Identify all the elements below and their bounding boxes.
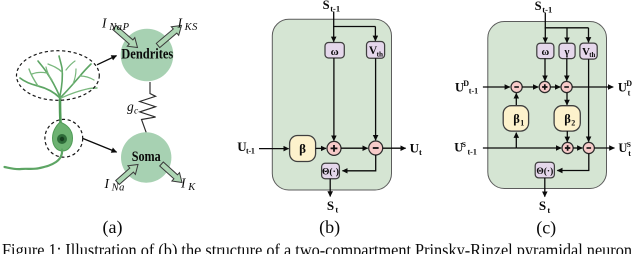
svg-text:th: th — [377, 51, 383, 59]
wire minus2 down to beta2 — [566, 93, 568, 105]
dendrite tree of drawn neuron — [20, 56, 97, 122]
wire minus2 to U^D_t — [572, 86, 613, 88]
arrow from dendrites to Dendrites node — [97, 56, 117, 65]
svg-text:I: I — [180, 176, 187, 191]
svg-text:S: S — [539, 198, 546, 213]
wire plus1 to minus2 — [550, 86, 560, 88]
wire Vth to minus — [375, 58, 377, 140]
box beta2 — [554, 106, 580, 131]
wire gamma to minus2 — [566, 59, 568, 81]
box omega c — [537, 43, 554, 58]
svg-text:Soma: Soma — [132, 149, 161, 165]
svg-text:Θ(·): Θ(·) — [536, 166, 553, 177]
svg-text:γ: γ — [564, 47, 570, 58]
svg-text:(c): (c) — [536, 218, 556, 239]
wire minus down to theta — [343, 155, 376, 171]
svg-text:I: I — [104, 176, 111, 191]
panel body b — [272, 19, 391, 190]
svg-text:t-1: t-1 — [542, 5, 552, 15]
arrow from soma to Soma node — [83, 139, 117, 153]
svg-text:2: 2 — [571, 119, 575, 128]
wire S_t-1 down and branch — [334, 12, 376, 27]
wire omega to plus — [333, 58, 335, 141]
wire U_t-1 to beta — [259, 148, 289, 150]
summing node minus — [369, 141, 383, 155]
coupling resistor g_c — [140, 82, 156, 133]
svg-text:KS: KS — [184, 22, 199, 33]
summing node plus — [327, 141, 341, 155]
soma blob of drawn neuron — [53, 122, 73, 151]
wire beta2 down to plus2 — [566, 131, 568, 142]
svg-text:Θ(·): Θ(·) — [322, 167, 339, 178]
svg-text:Dendrites: Dendrites — [121, 47, 173, 63]
wire U^D_t-1 to minus1 — [483, 86, 510, 88]
summing node plus2 — [562, 142, 573, 153]
svg-text:t-1: t-1 — [246, 147, 255, 156]
svg-text:β: β — [564, 112, 571, 126]
block arrow I_NaP input — [113, 26, 138, 48]
wire Vth down to minus4 — [588, 59, 590, 142]
wire beta to plus — [316, 147, 326, 149]
box theta — [322, 163, 340, 178]
svg-text:c: c — [134, 107, 139, 117]
svg-text:t-1: t-1 — [468, 147, 477, 156]
svg-text:S: S — [323, 0, 330, 12]
svg-text:th: th — [589, 52, 595, 59]
wire into gamma box — [566, 28, 568, 43]
svg-text:t-1: t-1 — [469, 87, 478, 96]
svg-text:t: t — [628, 88, 631, 97]
block arrow I_K output — [160, 162, 182, 183]
wire theta to S_t — [329, 179, 331, 197]
svg-text:Na: Na — [111, 183, 125, 194]
wire plus2 to minus4 — [573, 147, 582, 149]
svg-text:t-1: t-1 — [330, 4, 340, 14]
wire into Vth box c — [588, 28, 590, 43]
wire into Vth box — [374, 27, 376, 41]
wire S_t-1 down and branch — [545, 13, 588, 28]
svg-text:S: S — [462, 140, 466, 149]
svg-text:ω: ω — [331, 46, 339, 58]
svg-text:S: S — [627, 140, 631, 149]
svg-text:S: S — [535, 0, 542, 13]
svg-text:(a): (a) — [103, 217, 123, 238]
box theta c — [535, 162, 554, 178]
wire minus4 to U^S_t — [594, 147, 614, 149]
wire beta1 up to minus1 — [515, 93, 517, 106]
wire U^S_t-1 to plus2 with junction to beta1 — [483, 147, 516, 149]
svg-text:ω: ω — [542, 47, 550, 58]
wire into omega box — [333, 26, 335, 42]
summing node minus4 — [583, 142, 594, 153]
node Soma — [121, 132, 171, 182]
summing node plus1 — [539, 81, 550, 92]
svg-text:S: S — [327, 198, 334, 213]
node Dendrites — [121, 29, 174, 82]
axon of drawn neuron — [5, 150, 63, 170]
svg-text:t: t — [419, 147, 422, 157]
svg-text:t: t — [547, 205, 550, 215]
svg-text:t: t — [335, 205, 338, 215]
wire minus4 down to theta c — [557, 154, 589, 171]
svg-text:1: 1 — [520, 119, 524, 128]
svg-text:NaP: NaP — [108, 22, 129, 33]
svg-text:Figure 1: Illustration of (b): Figure 1: Illustration of (b) the struct… — [2, 240, 632, 254]
wire into omega box c — [544, 27, 546, 42]
block arrow I_KS output — [156, 26, 181, 48]
svg-text:I: I — [177, 16, 184, 31]
box omega — [325, 43, 344, 59]
dashed circle around soma — [45, 119, 83, 157]
panel body c — [488, 22, 607, 189]
wire minus1 to plus1 — [522, 86, 538, 88]
wire omega c to plus1 — [544, 59, 546, 81]
wire theta c to S_t — [544, 178, 546, 197]
box Vth — [367, 42, 385, 59]
box beta — [290, 136, 316, 162]
wire plus to minus — [341, 147, 368, 149]
box beta1 — [503, 106, 528, 131]
dashed ellipse around dendrites — [17, 51, 100, 101]
summing node minus1 — [511, 81, 522, 92]
svg-text:I: I — [101, 16, 108, 31]
svg-text:K: K — [187, 182, 196, 193]
box Vth c — [580, 43, 597, 59]
svg-text:t: t — [628, 149, 631, 158]
svg-text:g: g — [127, 99, 134, 114]
svg-text:D: D — [626, 79, 632, 88]
box gamma — [559, 43, 575, 58]
summing node minus2 — [561, 81, 572, 92]
svg-text:(b): (b) — [319, 217, 340, 238]
svg-text:β: β — [299, 141, 306, 156]
wire minus to U_t — [383, 147, 406, 149]
svg-text:β: β — [513, 112, 520, 126]
block arrow I_Na input — [116, 165, 138, 185]
